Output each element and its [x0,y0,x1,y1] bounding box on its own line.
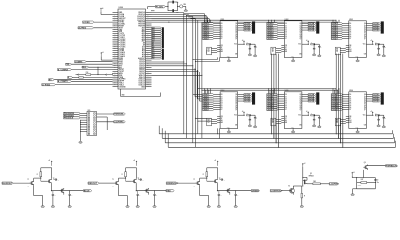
svg-text:ALTRED: ALTRED [78,27,86,30]
svg-text:C: C [221,195,222,197]
svg-text:CS1LCD: CS1LCD [138,81,145,83]
svg-text:GN: GN [235,54,237,56]
svg-text:R: R [122,174,123,176]
svg-text:D5: D5 [285,105,287,107]
svg-text:100nF: 100nF [358,185,362,187]
svg-text:D1: D1 [221,25,223,27]
svg-text:R: R [37,174,38,176]
svg-text:Q1: Q1 [235,96,237,98]
svg-text:GN: GN [364,54,366,56]
svg-text:P1.1T2X: P1.1T2X [119,35,126,37]
svg-text:D1: D1 [285,25,287,27]
svg-text:VCC: VCC [298,115,301,117]
svg-text:D3: D3 [349,101,351,103]
svg-text:U303: U303 [349,19,353,21]
svg-text:C: C [385,118,386,120]
svg-text:U306: U306 [349,90,353,92]
svg-text:D2: D2 [221,27,223,29]
svg-text:Q2: Q2 [299,27,301,29]
svg-text:F1-A8L: F1-A8L [156,5,164,8]
svg-text:GND: GND [227,56,230,58]
svg-text:Q2: Q2 [364,27,366,29]
svg-text:REDOUT: REDOUT [88,183,97,185]
svg-text:VSYNC: VSYNC [119,22,125,24]
svg-text:D5: D5 [285,34,287,36]
svg-text:GND: GND [291,56,294,58]
svg-text:C: C [156,195,157,197]
svg-text:VBOOST: VBOOST [119,18,126,20]
svg-text:P1.6CEX: P1.6CEX [119,44,127,46]
svg-text:SH: SH [285,120,287,122]
svg-text:R: R [375,113,376,115]
svg-text:Q1: Q1 [235,25,237,27]
svg-text:D3: D3 [349,30,351,32]
svg-text:PB2STB: PB2STB [138,25,145,27]
svg-text:Q2: Q2 [235,27,237,29]
svg-text:SH: SH [349,120,351,122]
svg-text:D7: D7 [349,38,351,40]
svg-text:GND: GND [227,127,230,129]
svg-text:Q5: Q5 [310,173,312,175]
svg-text:LCDPWRC: LCDPWRC [114,122,124,124]
svg-text:Q1: Q1 [364,25,366,27]
svg-text:D2: D2 [221,98,223,100]
svg-text:D5: D5 [221,34,223,36]
svg-text:SH: SH [221,49,223,51]
svg-text:U302: U302 [285,19,289,21]
svg-text:R: R [113,186,114,188]
svg-text:Q5: Q5 [235,105,237,107]
svg-text:A_COMTX: A_COMTX [58,80,69,83]
svg-text:Q1: Q1 [299,25,301,27]
svg-text:CS3LCD: CS3LCD [138,84,145,86]
svg-text:D3: D3 [221,101,223,103]
svg-text:C: C [139,195,140,197]
svg-text:Q7: Q7 [364,38,366,40]
svg-text:Q6: Q6 [235,107,237,109]
svg-text:D6: D6 [349,36,351,38]
svg-text:D1: D1 [349,25,351,27]
svg-text:D5: D5 [349,34,351,36]
svg-text:Q0: Q0 [364,23,366,25]
svg-text:C: C [256,47,257,49]
svg-text:T0CNT: T0CNT [119,69,124,71]
svg-text:16M: 16M [183,4,186,6]
svg-text:R: R [375,42,376,44]
svg-text:Q2: Q2 [235,98,237,100]
svg-text:RXD1: RXD1 [119,62,123,64]
svg-text:C: C [55,195,56,197]
svg-text:Q1: Q1 [299,96,301,98]
svg-text:Q6: Q6 [364,162,366,164]
svg-text:22p: 22p [176,11,178,13]
svg-text:R: R [247,42,248,44]
svg-text:CS2LCD: CS2LCD [138,82,145,84]
svg-text:RXD0: RXD0 [119,58,123,60]
svg-text:C: C [385,47,386,49]
svg-text:Q6: Q6 [299,36,301,38]
svg-text:VSSGND: VSSGND [119,86,127,88]
svg-text:CLK2B: CLK2B [119,16,125,18]
svg-text:D2OUT: D2OUT [139,63,145,65]
svg-text:D2: D2 [349,27,351,29]
svg-text:PWM8OBL: PWM8OBL [114,114,124,116]
svg-text:C: C [71,195,72,197]
svg-text:RED: RED [166,190,171,192]
svg-text:A_RXD2: A_RXD2 [42,83,51,86]
svg-text:Q7: Q7 [299,109,301,111]
svg-text:Q7: Q7 [299,38,301,40]
svg-text:D0: D0 [349,23,351,25]
svg-text:VCC: VCC [234,115,237,117]
svg-text:D0: D0 [285,23,287,25]
svg-text:SH: SH [349,49,351,51]
svg-text:D0: D0 [349,94,351,96]
svg-text:D2: D2 [285,98,287,100]
svg-text:RDLCD: RDLCD [139,77,146,79]
svg-text:RESET: RESET [119,25,124,27]
svg-text:Q5: Q5 [299,105,301,107]
svg-text:COMRX: COMRX [75,61,83,63]
svg-text:R: R [304,195,305,197]
svg-text:Q7: Q7 [235,38,237,40]
svg-text:D5: D5 [349,105,351,107]
svg-text:INT0: INT0 [119,65,123,67]
svg-text:+U: +U [214,160,216,162]
svg-text:CONTROUT: CONTROUT [271,191,284,193]
svg-text:C9: C9 [377,179,379,181]
svg-text:R12: R12 [86,72,89,74]
svg-text:VCC: VCC [363,44,366,46]
svg-text:R: R [28,186,29,188]
svg-text:D5: D5 [221,105,223,107]
svg-text:+5: +5 [102,52,104,54]
svg-text:P1.2ECI: P1.2ECI [119,37,126,39]
svg-text:+U: +U [48,160,50,162]
svg-text:ST: ST [221,118,223,120]
svg-text:D6: D6 [221,107,223,109]
svg-text:Q2: Q2 [299,98,301,100]
svg-text:GREENOUT: GREENOUT [167,183,179,185]
svg-text:CS0LCD: CS0LCD [138,79,145,81]
svg-text:TXD0: TXD0 [119,60,123,62]
svg-text:ST: ST [349,118,351,120]
svg-text:D6: D6 [285,36,287,38]
svg-text:LCDEN: LCDEN [83,22,90,24]
svg-text:GN: GN [299,54,301,56]
svg-text:D6: D6 [349,107,351,109]
svg-text:Q7: Q7 [235,109,237,111]
svg-text:D3: D3 [285,101,287,103]
svg-text:D3OUT: D3OUT [139,65,145,67]
svg-text:X20: X20 [88,110,91,112]
svg-text:C: C [224,179,225,181]
svg-text:D0OUT: D0OUT [139,60,145,62]
svg-text:PB1STB: PB1STB [138,24,145,26]
svg-text:D6OUT: D6OUT [139,71,145,73]
svg-text:R: R [311,42,312,44]
svg-text:GN: GN [235,125,237,127]
svg-text:A_COMRX: A_COMRX [58,68,69,71]
svg-text:P1.5CEX: P1.5CEX [119,43,127,45]
svg-text:R: R [194,186,195,188]
svg-text:D7: D7 [285,38,287,40]
svg-text:Q0: Q0 [299,23,301,25]
svg-text:Q3: Q3 [299,30,301,32]
svg-text:T1CNT: T1CNT [119,71,124,73]
svg-text:Q3: Q3 [364,101,366,103]
svg-text:D6: D6 [221,36,223,38]
svg-text:ST: ST [285,118,287,120]
svg-text:Q5: Q5 [364,34,366,36]
svg-text:D5OUT: D5OUT [139,69,145,71]
svg-text:VCC: VCC [298,44,301,46]
svg-text:C: C [256,118,257,120]
svg-text:D6: D6 [285,107,287,109]
svg-text:Q6: Q6 [299,107,301,109]
svg-text:HSYNC: HSYNC [119,20,126,22]
svg-text:Q3: Q3 [364,30,366,32]
svg-text:Q3: Q3 [235,30,237,32]
svg-text:R: R [203,174,204,176]
svg-text:OE: OE [349,116,351,118]
svg-text:TXD1: TXD1 [119,63,123,65]
svg-text:SH: SH [285,49,287,51]
svg-text:OE: OE [221,45,223,47]
svg-text:OE: OE [285,116,287,118]
svg-text:Q5: Q5 [299,34,301,36]
svg-text:+5: +5 [102,8,104,10]
svg-text:OE: OE [285,45,287,47]
svg-text:U200: U200 [119,7,124,9]
svg-text:ST: ST [221,47,223,49]
svg-text:T1: T1 [112,179,114,181]
svg-text:WRLCD: WRLCD [139,75,146,77]
svg-text:10n: 10n [377,182,379,184]
svg-text:P1.7CEX: P1.7CEX [119,46,127,48]
svg-text:CLKOUT1: CLKOUT1 [137,18,145,20]
svg-text:D0: D0 [221,94,223,96]
svg-text:INT1: INT1 [119,67,123,69]
svg-text:+U: +U [133,160,135,162]
svg-text:Q5: Q5 [364,105,366,107]
svg-text:C: C [321,47,322,49]
svg-text:+U: +U [304,163,306,165]
svg-text:BLUE: BLUE [84,190,90,192]
svg-text:Q5: Q5 [235,34,237,36]
svg-text:GREEN: GREEN [252,190,260,192]
svg-text:U305: U305 [285,90,289,92]
svg-text:D1: D1 [285,96,287,98]
svg-text:Q7: Q7 [364,109,366,111]
svg-text:GND: GND [355,127,358,129]
svg-text:D1OUT: D1OUT [139,62,145,64]
svg-text:Q6: Q6 [235,36,237,38]
svg-text:GND: GND [291,127,294,129]
svg-text:C: C [58,179,59,181]
svg-text:ST: ST [285,47,287,49]
svg-text:GN: GN [299,125,301,127]
svg-text:GND: GND [122,94,125,96]
svg-text:Q6: Q6 [364,36,366,38]
svg-text:Q0: Q0 [299,94,301,96]
svg-text:VCC: VCC [363,115,366,117]
svg-text:OE: OE [349,45,351,47]
svg-text:GND: GND [355,56,358,58]
svg-text:U301: U301 [220,19,224,21]
svg-text:D7OUT: D7OUT [139,73,145,75]
svg-text:C: C [321,118,322,120]
svg-text:Q0: Q0 [364,94,366,96]
svg-text:Q3: Q3 [299,101,301,103]
svg-text:D7: D7 [221,109,223,111]
svg-text:Q0: Q0 [235,23,237,25]
svg-text:PROGSCK: PROGSCK [64,118,74,120]
svg-text:D1: D1 [349,96,351,98]
svg-text:SH: SH [221,120,223,122]
svg-text:Q2: Q2 [364,98,366,100]
svg-text:Q6: Q6 [364,107,366,109]
svg-text:CLKSEL: CLKSEL [119,24,126,26]
svg-text:D2: D2 [349,98,351,100]
svg-text:OE: OE [221,116,223,118]
svg-text:D1: D1 [221,96,223,98]
svg-text:ST: ST [349,47,351,49]
svg-text:PWRBACKL: PWRBACKL [386,165,399,168]
svg-text:LCDPWR: LCDPWR [330,184,340,186]
svg-text:Q0: Q0 [235,94,237,96]
svg-text:GN: GN [364,125,366,127]
svg-text:D0: D0 [221,23,223,25]
svg-text:R: R [247,113,248,115]
svg-text:CLKOUT2: CLKOUT2 [137,20,145,22]
svg-text:CLKOUT0: CLKOUT0 [137,16,145,18]
svg-text:D2: D2 [285,27,287,29]
svg-text:P1.0T2: P1.0T2 [119,33,124,35]
svg-text:P1.3CEX: P1.3CEX [119,39,127,41]
svg-text:D3: D3 [221,30,223,32]
svg-text:D7: D7 [349,109,351,111]
svg-text:D7: D7 [285,109,287,111]
svg-text:C: C [237,195,238,197]
svg-text:TEST: TEST [119,27,123,29]
svg-text:R: R [311,113,312,115]
svg-text:D7: D7 [221,38,223,40]
svg-text:D3: D3 [285,30,287,32]
svg-text:VCC: VCC [234,44,237,46]
svg-text:C: C [143,179,144,181]
svg-text:Q1: Q1 [364,96,366,98]
svg-text:+5: +5 [353,172,355,174]
svg-text:D0: D0 [285,94,287,96]
svg-text:BLUEOUT: BLUEOUT [2,183,13,185]
svg-text:PB0STB: PB0STB [138,22,145,24]
svg-text:Q3: Q3 [235,101,237,103]
